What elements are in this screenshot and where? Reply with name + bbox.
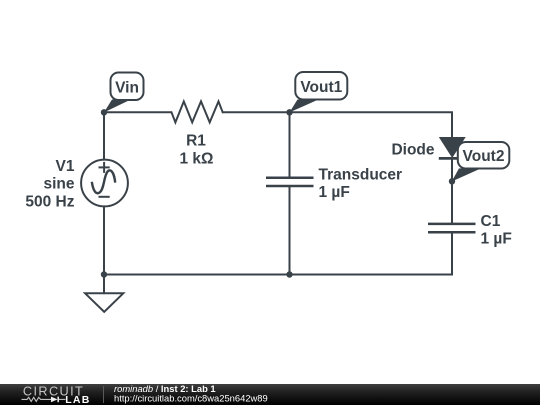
node dot Vin xyxy=(101,109,107,115)
svg-text:C1: C1 xyxy=(481,213,501,230)
svg-text:Diode: Diode xyxy=(391,142,434,159)
footer divider xyxy=(103,386,105,403)
node dot Vout2 xyxy=(449,178,455,184)
Transducer value labels xyxy=(319,167,403,202)
C1 value labels xyxy=(481,213,512,248)
node flag Vout1 xyxy=(290,72,348,112)
wire Vin node to R1 xyxy=(104,111,172,113)
svg-text:http://circuitlab.com/c8wa25n6: http://circuitlab.com/c8wa25n642w89 xyxy=(114,393,268,404)
wire Vout1 node to Transducer xyxy=(289,112,291,177)
capacitor Transducer xyxy=(266,178,314,186)
logo diode xyxy=(51,397,58,403)
logo resistor squiggle xyxy=(22,398,52,402)
svg-text:Vout2: Vout2 xyxy=(463,148,505,165)
node flag Vin xyxy=(104,73,144,113)
svg-text:R1: R1 xyxy=(186,133,206,150)
svg-text:Vout1: Vout1 xyxy=(300,79,342,96)
svg-text:V1: V1 xyxy=(56,158,75,175)
svg-text:Transducer: Transducer xyxy=(319,167,403,184)
svg-text:1 µF: 1 µF xyxy=(481,231,512,248)
V1 value labels xyxy=(25,158,75,210)
diode xyxy=(439,137,466,158)
footer bar xyxy=(0,384,540,405)
node flag Vout2 xyxy=(452,142,510,182)
wire diode cathode to C1 xyxy=(451,159,453,224)
node dot Vout1 xyxy=(286,109,292,115)
resistor R1 value labels xyxy=(180,133,214,168)
svg-text:1 kΩ: 1 kΩ xyxy=(180,151,214,168)
ground xyxy=(85,293,123,312)
node dot Transducer junction xyxy=(286,271,292,277)
svg-text:500 Hz: 500 Hz xyxy=(25,193,74,210)
wire R1 to top-right corner xyxy=(223,112,452,137)
node dot ground junction xyxy=(101,271,107,277)
wire V1 bottom to ground xyxy=(103,206,105,293)
wire Transducer to bottom rail xyxy=(289,186,291,275)
voltage source V1 xyxy=(81,160,128,207)
svg-text:Vin: Vin xyxy=(115,79,139,96)
resistor R1 xyxy=(172,101,223,122)
wire Vin node to V1 top xyxy=(103,112,105,159)
svg-text:sine: sine xyxy=(43,176,74,193)
capacitor C1 xyxy=(428,224,476,232)
svg-text:LAB: LAB xyxy=(65,394,90,405)
svg-text:1 µF: 1 µF xyxy=(319,184,350,201)
wire C1 to bottom rail xyxy=(104,232,452,274)
